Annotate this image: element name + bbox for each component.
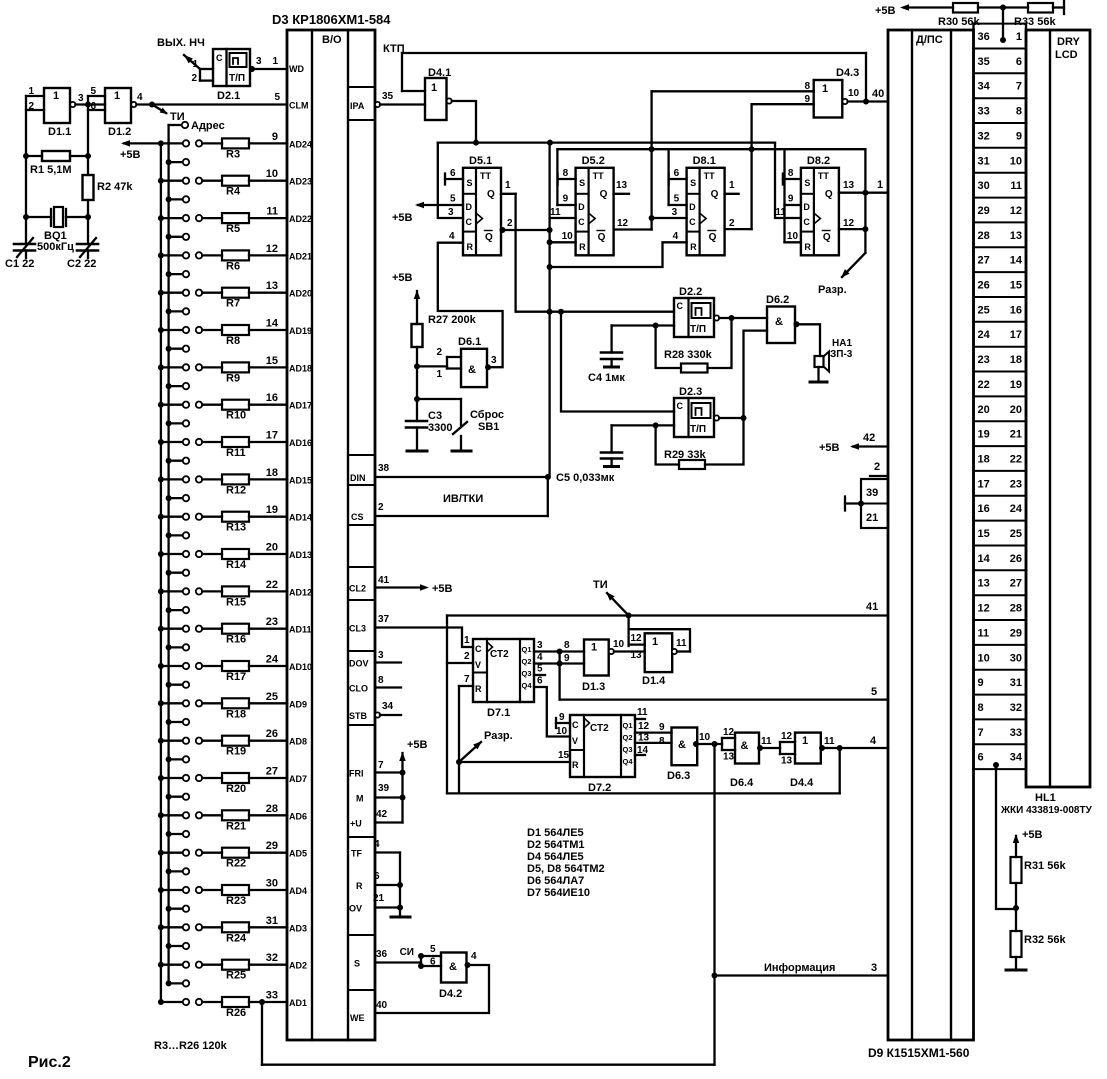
svg-text:+5В: +5В <box>1022 829 1043 841</box>
svg-text:6: 6 <box>674 168 680 179</box>
resistor R32 56k <box>1011 931 1022 957</box>
selector contact <box>166 794 172 800</box>
wire R30/R33 node to backplane row <box>1002 8 1004 41</box>
resistor R10 with selector contacts <box>158 402 164 408</box>
svg-text:21: 21 <box>866 512 878 524</box>
svg-text:12: 12 <box>781 731 793 742</box>
svg-text:+5В: +5В <box>875 5 896 17</box>
wire D5.2 R input <box>550 241 576 243</box>
address bus right <box>167 125 169 983</box>
wire clock line to D2.2 <box>550 311 674 313</box>
svg-text:D6.3: D6.3 <box>667 770 690 782</box>
svg-text:9: 9 <box>272 131 278 143</box>
svg-text:2: 2 <box>507 218 513 229</box>
svg-text:33: 33 <box>978 106 990 118</box>
wire D5.2 Q stub pin 13 <box>614 193 629 195</box>
svg-text:D5.2: D5.2 <box>582 155 605 167</box>
svg-text:AD4: AD4 <box>289 886 307 896</box>
selector contact <box>166 495 172 501</box>
svg-text:11: 11 <box>1010 180 1022 192</box>
resistor R33 56k <box>1028 3 1053 13</box>
inverter D1.1 <box>44 88 70 123</box>
svg-text:1: 1 <box>591 642 597 654</box>
svg-text:8: 8 <box>978 702 984 714</box>
resistor R14 with selector contacts <box>158 551 164 557</box>
svg-text:Q: Q <box>600 189 608 200</box>
svg-text:AD21: AD21 <box>289 251 312 261</box>
D7.1 pin 2 V from frame <box>447 662 473 664</box>
svg-text:13: 13 <box>631 650 643 661</box>
svg-text:1: 1 <box>877 179 883 191</box>
wire D1.4 output feedback loop <box>629 629 690 651</box>
flip-flop D2.1 <box>213 49 250 86</box>
svg-text:15: 15 <box>978 528 990 540</box>
wire D6.1 out to D5.1 R <box>438 243 503 368</box>
svg-text:4: 4 <box>449 231 455 242</box>
svg-text:18: 18 <box>266 467 278 479</box>
selector contact <box>166 308 172 314</box>
svg-text:R14: R14 <box>226 559 247 571</box>
svg-text:D5, D8 564ТМ2: D5, D8 564ТМ2 <box>527 863 605 875</box>
selector contact <box>166 196 172 202</box>
wire D8.2 Qbar pin 12 <box>839 228 866 230</box>
svg-text:D1.3: D1.3 <box>582 681 605 693</box>
svg-text:Д/ПС: Д/ПС <box>916 34 943 46</box>
svg-text:1: 1 <box>802 735 808 747</box>
svg-text:17: 17 <box>978 478 990 490</box>
svg-text:10: 10 <box>699 732 711 743</box>
svg-text:34: 34 <box>1010 752 1023 764</box>
resistor R4 with selector contacts <box>158 178 164 184</box>
svg-text:3: 3 <box>378 650 384 661</box>
svg-text:&: & <box>741 740 749 752</box>
svg-text:1: 1 <box>1016 31 1022 43</box>
wire CLM line D1.2 out to D3 pin 5 <box>136 103 287 105</box>
svg-text:32: 32 <box>1010 702 1022 714</box>
svg-text:D2 564ТМ1: D2 564ТМ1 <box>527 839 584 851</box>
svg-text:R12: R12 <box>226 484 246 496</box>
svg-text:ТТ: ТТ <box>818 171 829 181</box>
resistor R1 5,1M <box>42 151 70 161</box>
svg-text:3: 3 <box>871 962 877 974</box>
wire left bus of oscillator <box>25 96 27 244</box>
svg-text:500кГц: 500кГц <box>37 241 74 253</box>
svg-text:+5В: +5В <box>819 442 840 454</box>
svg-text:5: 5 <box>871 686 877 698</box>
resistor R2 47k <box>83 175 94 200</box>
svg-text:6: 6 <box>374 871 380 882</box>
svg-text:D2.2: D2.2 <box>679 286 702 298</box>
svg-text:C: C <box>466 217 473 227</box>
svg-text:34: 34 <box>978 81 991 93</box>
wire D5.1 Q to timer clocks line <box>516 194 550 312</box>
D7.2 pin 9 C stub <box>556 722 570 724</box>
wire between R30 R33 <box>978 6 1028 8</box>
svg-text:D7.1: D7.1 <box>487 707 510 719</box>
svg-text:36: 36 <box>978 31 990 43</box>
svg-text:14: 14 <box>637 745 649 756</box>
svg-text:16: 16 <box>978 503 990 515</box>
svg-text:7: 7 <box>378 760 384 771</box>
svg-text:V: V <box>572 736 578 746</box>
wire D5.2 C input <box>550 217 576 219</box>
node between D1.1 and D1.2 <box>85 102 91 108</box>
wire D6.2 out to HA1 <box>795 324 820 356</box>
svg-text:37: 37 <box>378 614 390 625</box>
D9 pin 42 to +5V <box>853 445 888 447</box>
selector contact <box>166 271 172 277</box>
svg-text:14: 14 <box>266 318 279 330</box>
svg-text:AD19: AD19 <box>289 326 312 336</box>
gate D4.2 <box>441 953 467 983</box>
wire D4.1 out to reset rail <box>452 101 476 143</box>
svg-text:D4.3: D4.3 <box>836 67 859 79</box>
svg-text:15: 15 <box>266 355 278 367</box>
svg-text:8: 8 <box>788 168 794 179</box>
node TI label arrow <box>149 102 155 108</box>
svg-text:34: 34 <box>382 701 394 712</box>
svg-text:8: 8 <box>564 640 570 651</box>
svg-text:D: D <box>689 202 696 212</box>
svg-text:31: 31 <box>978 155 990 167</box>
svg-text:9: 9 <box>563 194 569 205</box>
svg-text:+5В: +5В <box>120 149 141 161</box>
svg-text:Q: Q <box>709 232 717 243</box>
svg-text:AD8: AD8 <box>289 737 307 747</box>
svg-text:M: M <box>356 794 364 804</box>
svg-text:27: 27 <box>266 766 278 778</box>
svg-text:R25: R25 <box>226 970 246 982</box>
svg-text:2: 2 <box>729 218 735 229</box>
svg-text:35: 35 <box>978 56 990 68</box>
resistor R3 with selector contacts <box>158 140 164 146</box>
svg-text:25: 25 <box>1010 528 1022 540</box>
svg-text:R31 56k: R31 56k <box>1024 860 1066 872</box>
svg-text:R8: R8 <box>226 335 240 347</box>
svg-text:2: 2 <box>436 347 442 358</box>
node TI tap with arrow <box>626 613 632 619</box>
selector contact <box>166 868 172 874</box>
svg-text:AD15: AD15 <box>289 475 312 485</box>
svg-text:ТИ: ТИ <box>593 579 608 591</box>
resistor R26 with selector contacts <box>158 999 164 1005</box>
svg-text:19: 19 <box>1010 379 1022 391</box>
svg-text:S: S <box>467 178 473 188</box>
svg-text:Q: Q <box>598 232 606 243</box>
svg-text:S: S <box>354 959 360 969</box>
svg-text:21: 21 <box>373 893 385 904</box>
selector contact <box>166 644 172 650</box>
svg-text:19: 19 <box>978 429 990 441</box>
svg-text:10: 10 <box>562 231 574 242</box>
D3 right column dividers <box>348 86 375 88</box>
resistor R15 with selector contacts <box>158 588 164 594</box>
svg-text:39: 39 <box>866 487 878 499</box>
svg-text:В/О: В/О <box>322 34 342 46</box>
svg-text:41: 41 <box>866 601 878 613</box>
svg-text:CLM: CLM <box>289 101 309 111</box>
svg-text:9: 9 <box>788 194 794 205</box>
svg-text:9: 9 <box>659 722 665 733</box>
svg-text:11: 11 <box>824 736 835 747</box>
svg-text:ТТ: ТТ <box>480 171 491 181</box>
svg-text:13: 13 <box>1010 230 1022 242</box>
svg-text:28: 28 <box>978 230 990 242</box>
svg-text:R18: R18 <box>226 708 246 720</box>
svg-text:4: 4 <box>137 92 143 103</box>
svg-text:С: С <box>216 53 223 63</box>
wire D9 pin 41 line <box>447 614 888 616</box>
svg-text:D: D <box>578 202 585 212</box>
wire D8.2 Q pin 13 to D9 pin 1 <box>839 192 888 194</box>
svg-text:C: C <box>578 217 585 227</box>
node vertical common at x549.6 <box>548 143 550 477</box>
svg-text:32: 32 <box>266 952 278 964</box>
svg-text:С1 22: С1 22 <box>5 258 34 270</box>
svg-text:30: 30 <box>1010 652 1022 664</box>
svg-text:19: 19 <box>266 504 278 516</box>
svg-text:R7: R7 <box>226 298 240 310</box>
svg-text:C: C <box>475 644 482 654</box>
svg-text:R: R <box>572 760 579 770</box>
svg-text:4: 4 <box>870 735 877 747</box>
svg-text:33: 33 <box>266 990 278 1002</box>
wire R27 node to D6.1 inputs <box>417 365 447 367</box>
svg-text:7: 7 <box>1016 81 1022 93</box>
svg-text:Т/П: Т/П <box>690 424 706 435</box>
wire counter box left vertical <box>446 616 448 794</box>
capacitor C3 3300 <box>406 420 427 423</box>
svg-text:C: C <box>689 217 696 227</box>
resistor R18 with selector contacts <box>158 700 164 706</box>
svg-text:OV: OV <box>349 904 362 914</box>
svg-text:1: 1 <box>464 635 470 646</box>
resistor R22 with selector contacts <box>158 850 164 856</box>
svg-text:9: 9 <box>559 712 565 723</box>
svg-text:27: 27 <box>1010 578 1022 590</box>
trimmer capacitor C2 22 <box>77 243 98 246</box>
svg-text:8: 8 <box>804 81 810 92</box>
selector contact <box>166 383 172 389</box>
svg-text:D8.2: D8.2 <box>807 155 830 167</box>
selector contact <box>166 943 172 949</box>
svg-text:3: 3 <box>491 355 497 366</box>
svg-text:Q: Q <box>487 189 495 200</box>
svg-text:STB: STB <box>349 711 368 721</box>
svg-text:24: 24 <box>1010 503 1023 515</box>
svg-text:D3 КР1806ХМ1-584: D3 КР1806ХМ1-584 <box>272 12 391 27</box>
IC D3 KR1806XM1-584 body <box>287 30 375 1040</box>
resistor R9 with selector contacts <box>158 364 164 370</box>
svg-text:DIN: DIN <box>350 473 366 483</box>
svg-text:D7 564ИЕ10: D7 564ИЕ10 <box>527 887 590 899</box>
gate D1.4 <box>645 633 673 672</box>
gate D6.3 <box>672 728 698 766</box>
D7.1 pin 7 R <box>459 685 473 687</box>
selector contact <box>166 570 172 576</box>
svg-text:R: R <box>467 242 474 252</box>
svg-text:3300: 3300 <box>428 422 452 434</box>
svg-text:13: 13 <box>616 180 628 191</box>
svg-text:13: 13 <box>781 756 793 767</box>
svg-text:D1.2: D1.2 <box>108 126 131 138</box>
svg-text:AD16: AD16 <box>289 438 312 448</box>
svg-text:R24: R24 <box>226 932 247 944</box>
wire rail to D5.1 C input <box>438 143 463 218</box>
svg-text:+5В: +5В <box>392 212 413 224</box>
resistor R12 with selector contacts <box>158 476 164 482</box>
svg-text:Q3: Q3 <box>522 669 532 678</box>
svg-text:25: 25 <box>978 304 990 316</box>
svg-text:15: 15 <box>558 750 570 761</box>
svg-text:Q: Q <box>825 189 833 200</box>
svg-text:12: 12 <box>266 243 278 255</box>
svg-text:12: 12 <box>978 603 990 615</box>
LCD connection matrix <box>972 24 974 770</box>
svg-text:CS: CS <box>351 512 364 522</box>
svg-text:1: 1 <box>436 369 442 380</box>
svg-text:40: 40 <box>376 1000 388 1011</box>
wire R15 to D7.2 <box>459 761 570 763</box>
wire information line to D9 pin 3 <box>712 973 718 979</box>
LCD display HL1 <box>1026 30 1090 787</box>
svg-text:R16: R16 <box>226 634 246 646</box>
selector contact <box>166 831 172 837</box>
wire bottom bus from AD1 <box>259 999 265 1005</box>
sounder HA1 ZP-3 <box>815 356 824 367</box>
svg-text:12: 12 <box>843 218 855 229</box>
trimmer capacitor C1 22 <box>14 243 35 246</box>
+5V arrow to R27 <box>416 291 418 324</box>
svg-text:Разр.: Разр. <box>818 284 847 296</box>
svg-text:С3: С3 <box>428 410 442 422</box>
svg-text:S: S <box>804 178 810 188</box>
svg-text:5: 5 <box>450 194 456 205</box>
svg-text:5: 5 <box>674 194 680 205</box>
svg-text:6: 6 <box>978 752 984 764</box>
svg-text:11: 11 <box>761 736 772 747</box>
wire TI node to D1.4 input 12 <box>627 616 629 647</box>
node Adres terminal <box>169 124 182 126</box>
svg-text:11: 11 <box>978 627 990 639</box>
svg-text:2: 2 <box>378 502 384 513</box>
svg-text:R17: R17 <box>226 671 246 683</box>
svg-text:21: 21 <box>1010 429 1022 441</box>
svg-text:2: 2 <box>464 651 470 662</box>
resistor R31 56k <box>1011 857 1022 883</box>
svg-text:3: 3 <box>78 93 84 104</box>
svg-text:36: 36 <box>376 949 388 960</box>
wire D4.4 out to D9 pin 4 <box>821 747 888 749</box>
selector contact <box>166 532 172 538</box>
svg-text:S: S <box>690 178 696 188</box>
resistor R6 with selector contacts <box>158 252 164 258</box>
wire D4.3 out to D9 pin 40 <box>848 100 888 102</box>
svg-text:D9 К1515ХМ1-560: D9 К1515ХМ1-560 <box>868 1046 970 1060</box>
svg-text:+5В: +5В <box>392 272 413 284</box>
svg-text:10: 10 <box>556 726 568 737</box>
svg-text:D1.1: D1.1 <box>48 126 71 138</box>
svg-text:D7.2: D7.2 <box>588 782 611 794</box>
svg-text:27: 27 <box>978 255 990 267</box>
svg-text:16: 16 <box>1010 304 1022 316</box>
svg-text:2: 2 <box>191 73 197 84</box>
svg-text:18: 18 <box>978 454 990 466</box>
svg-text:5: 5 <box>90 86 96 97</box>
svg-text:D2.3: D2.3 <box>679 386 702 398</box>
svg-text:5: 5 <box>537 664 543 675</box>
svg-text:+5В: +5В <box>432 583 453 595</box>
svg-text:13: 13 <box>843 180 855 191</box>
ground for R32 <box>1006 969 1026 972</box>
svg-text:AD5: AD5 <box>289 849 307 859</box>
svg-text:6: 6 <box>450 168 456 179</box>
resistor R23 with selector contacts <box>158 887 164 893</box>
svg-text:R20: R20 <box>226 783 246 795</box>
svg-text:26: 26 <box>978 280 990 292</box>
svg-text:23: 23 <box>978 354 990 366</box>
svg-text:42: 42 <box>376 809 388 820</box>
svg-text:13: 13 <box>266 280 278 292</box>
svg-text:11: 11 <box>676 638 687 649</box>
svg-text:3: 3 <box>537 640 543 651</box>
svg-text:12: 12 <box>617 218 629 229</box>
svg-text:12: 12 <box>638 721 650 732</box>
svg-text:AD3: AD3 <box>289 923 307 933</box>
+5V arrow for R31 <box>1015 836 1017 857</box>
svg-text:R6: R6 <box>226 260 240 272</box>
svg-text:Т/П: Т/П <box>229 73 245 84</box>
svg-text:29: 29 <box>1010 627 1022 639</box>
svg-text:9: 9 <box>564 653 570 664</box>
svg-text:10: 10 <box>266 168 278 180</box>
resistor R11 with selector contacts <box>158 439 164 445</box>
wire pin 34 row to R31/R32 divider <box>993 762 999 768</box>
svg-text:32: 32 <box>978 130 990 142</box>
svg-text:R2 47k: R2 47k <box>97 181 133 193</box>
resistor R7 with selector contacts <box>158 290 164 296</box>
+5V arrow to selector bus <box>124 142 161 144</box>
svg-text:Q2: Q2 <box>522 657 532 666</box>
svg-text:29: 29 <box>266 840 278 852</box>
svg-text:9: 9 <box>804 94 810 105</box>
resistor R16 with selector contacts <box>158 626 164 632</box>
resistor R21 with selector contacts <box>158 812 164 818</box>
svg-text:+U: +U <box>350 819 362 829</box>
svg-text:28: 28 <box>1010 603 1022 615</box>
svg-text:24: 24 <box>978 329 991 341</box>
svg-text:28: 28 <box>266 803 278 815</box>
svg-text:R: R <box>579 242 586 252</box>
resistor R24 with selector contacts <box>158 924 164 930</box>
svg-text:R21: R21 <box>226 820 246 832</box>
svg-text:R3: R3 <box>226 148 240 160</box>
svg-text:ВЫХ. НЧ: ВЫХ. НЧ <box>157 37 205 49</box>
wire D5.1 Qbar pin 2 <box>501 229 550 231</box>
D7.2 outputs <box>635 718 645 720</box>
svg-text:D2.1: D2.1 <box>217 90 240 102</box>
pin 6 S stub of D5.1 <box>445 178 463 180</box>
svg-text:10: 10 <box>787 231 799 242</box>
svg-text:R13: R13 <box>226 522 246 534</box>
wire branch to D2.3 <box>561 312 674 412</box>
svg-text:&: & <box>775 316 783 328</box>
+5V arrow to D5.1 D input <box>418 204 463 206</box>
svg-text:Q: Q <box>711 189 719 200</box>
wire D2.2 second input from C4 <box>653 323 659 329</box>
svg-text:1: 1 <box>822 83 828 95</box>
selector contact <box>166 756 172 762</box>
